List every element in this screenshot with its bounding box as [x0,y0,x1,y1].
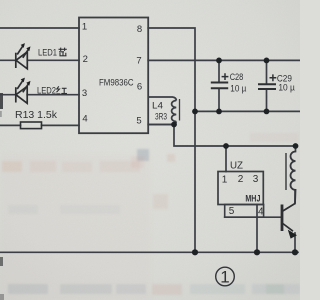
svg-text:5: 5 [136,116,141,127]
svg-text:6: 6 [137,82,142,93]
svg-text:2: 2 [238,174,244,185]
svg-text:LED1: LED1 [38,48,57,59]
svg-text:MHJ: MHJ [245,194,260,205]
svg-text:FM9836C: FM9836C [99,77,134,88]
svg-text:1: 1 [82,21,87,32]
svg-text:10 µ: 10 µ [230,83,246,93]
svg-text:L4: L4 [152,100,163,111]
svg-text:4: 4 [258,206,264,217]
svg-text:UZ: UZ [230,160,243,171]
svg-text:1: 1 [222,174,228,185]
svg-text:10 µ: 10 µ [278,83,295,93]
svg-text:5: 5 [229,206,235,217]
svg-text:LED2: LED2 [37,85,56,96]
svg-text:4: 4 [82,114,87,125]
svg-text:2: 2 [83,54,88,65]
svg-text:3: 3 [253,174,259,185]
svg-text:1: 1 [220,268,229,287]
svg-text:3R3: 3R3 [155,112,167,122]
svg-text:3: 3 [82,88,87,99]
svg-text:7: 7 [136,55,141,66]
svg-text:C28: C28 [230,72,244,82]
svg-text:R13 1.5k: R13 1.5k [15,109,58,121]
svg-text:8: 8 [137,24,142,35]
